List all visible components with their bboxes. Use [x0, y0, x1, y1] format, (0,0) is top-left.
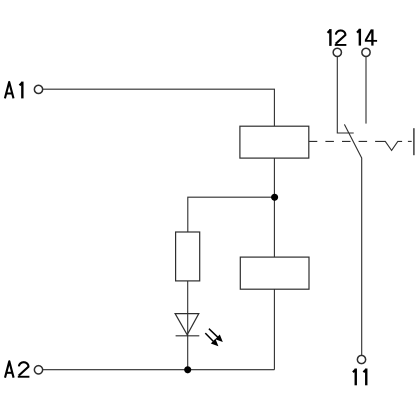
terminal 11 [357, 355, 365, 363]
label A2 [5, 361, 29, 377]
terminal A2 [34, 366, 42, 374]
wire resistor to LED to bottom rail [187, 281, 189, 370]
wire A1 to coil [43, 89, 274, 126]
terminal 14 [362, 48, 370, 56]
wire coil K1 bottom to suppressor top (node) [273, 158, 275, 257]
terminal A1 [34, 85, 42, 93]
label 14 [357, 29, 377, 46]
suppressor module [240, 257, 309, 289]
label 12 [328, 29, 347, 46]
reset symbol [375, 141, 402, 150]
moving contact blade to terminal 11 [344, 124, 361, 355]
relay coil K1 [240, 126, 309, 158]
node junction at bottom rail [184, 366, 191, 373]
NC contact 12 lead [337, 57, 353, 133]
label A1 [5, 82, 23, 99]
label 11 [353, 369, 367, 386]
node junction at coil/resistor branch [271, 194, 278, 201]
wire bottom rail A2 [43, 369, 274, 371]
wire node to resistor branch [188, 197, 275, 232]
terminal 12 [333, 48, 341, 56]
LED cathode bar [176, 335, 200, 337]
LED emission arrow 1 [209, 329, 223, 342]
wire suppressor bottom to bottom rail [273, 289, 275, 370]
LED triangle [175, 314, 199, 335]
NO contact 14 lead [365, 57, 367, 124]
LED emission arrow 2 [205, 333, 218, 346]
resistor R [176, 232, 200, 281]
dash before frame [408, 140, 412, 142]
frame bar [413, 128, 415, 155]
actuator dashed link from coil [309, 140, 376, 142]
